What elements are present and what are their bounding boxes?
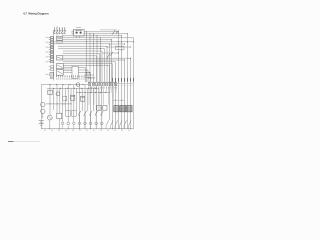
relay K6 xyxy=(103,105,107,110)
footer page rule xyxy=(8,140,40,142)
fuse row F1-F5 xyxy=(53,27,66,36)
resistor unit R1 xyxy=(57,113,62,129)
connector X7 xyxy=(116,46,125,50)
switch unit S4 xyxy=(56,64,63,69)
connector pin band X8 xyxy=(113,78,134,86)
wire X1 outputs xyxy=(78,67,90,82)
wire mid bus xyxy=(41,85,110,94)
multi-pin connector X3 xyxy=(88,82,117,105)
wire stubs above X3 xyxy=(84,74,93,77)
title text 4.7 Wiring Diagram xyxy=(23,11,49,15)
ignition switch S1 xyxy=(112,30,119,35)
battery G1 xyxy=(39,121,44,129)
relay K5 xyxy=(97,105,101,110)
sensor unit B2 xyxy=(72,111,77,116)
wire right fan bundle xyxy=(63,58,131,65)
tail lamp group E9-E16 xyxy=(61,122,103,129)
wire top bus xyxy=(54,30,134,82)
wire left fan bundle xyxy=(54,44,131,82)
connector box X1 xyxy=(72,66,78,78)
wire mid vertical fan xyxy=(50,85,102,123)
wire right verticals xyxy=(110,32,134,129)
switch row S6-S10 xyxy=(78,111,103,129)
relay K3 xyxy=(81,96,85,101)
wire lower-left bus xyxy=(46,103,72,104)
wire left spine xyxy=(53,30,55,81)
junction dots upper area xyxy=(86,31,134,60)
sensor unit B1 xyxy=(66,111,71,116)
lamp E7 xyxy=(47,115,52,129)
junction dots mid bus xyxy=(49,84,96,89)
gauge P1 xyxy=(76,83,80,87)
switch unit S5 xyxy=(56,70,63,76)
control unit U1 xyxy=(56,36,62,43)
relay unit K1 xyxy=(72,28,84,38)
wire vertical drops xyxy=(87,32,101,82)
solenoid coil L1 xyxy=(89,78,95,79)
ground terminals xyxy=(44,129,130,131)
svg-text:4.7 Wiring Diagram: 4.7 Wiring Diagram xyxy=(23,11,49,15)
motor M1 and pump M2 xyxy=(41,85,45,129)
switch row bottom S14-S19 xyxy=(106,120,131,128)
wire middle harness xyxy=(63,67,72,72)
connector blocks X4-X6 xyxy=(114,106,132,112)
switch unit S3 xyxy=(56,56,62,60)
relay K2 xyxy=(71,95,75,100)
wire ground rail xyxy=(41,127,133,130)
junction block J1 with terminal rows xyxy=(46,37,54,79)
switch S2a xyxy=(107,52,113,59)
relay K7 xyxy=(63,96,67,101)
horn H1 xyxy=(56,92,60,96)
flasher unit K4 xyxy=(48,90,53,94)
connector pin band X2 xyxy=(57,75,85,79)
wire right link xyxy=(113,99,125,102)
